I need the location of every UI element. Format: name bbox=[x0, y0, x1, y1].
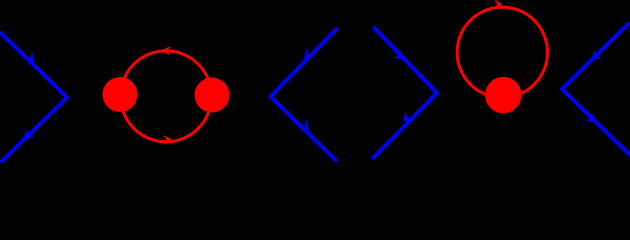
wire: incoming fermion line bbox=[562, 24, 628, 89]
arrow on incoming line of V1 bbox=[24, 51, 39, 66]
arrow on upper-left line of diamond bbox=[300, 47, 315, 62]
wire: upper-right line bbox=[375, 28, 438, 93]
arrow on lower-right line of diamond bbox=[399, 111, 414, 126]
arrow on bottom of loop L1 (pointing right) bbox=[163, 134, 173, 145]
wire: lower-left line bbox=[271, 97, 336, 161]
wire: upper-left line bbox=[271, 29, 337, 97]
arrow on outgoing line of V4 bbox=[585, 112, 600, 127]
fermion chevron V3 (right half of diamond) bbox=[374, 28, 438, 158]
fermion chevron V1 (left vertex diagram) bbox=[1, 33, 67, 161]
wire: incoming fermion line bbox=[1, 33, 67, 98]
blob B2 (right vertex blob of L1) bbox=[195, 78, 230, 113]
fermion chevron V4 (right vertex diagram) bbox=[562, 24, 629, 154]
wire: outgoing fermion line bbox=[562, 89, 629, 154]
wire: outgoing fermion line bbox=[2, 98, 67, 162]
arrow on outgoing line of V1 bbox=[19, 129, 34, 144]
arrow on top of loop L1 (pointing left) bbox=[162, 45, 171, 56]
blob B3 (bottom blob of L2) bbox=[485, 77, 521, 113]
wire: lower-right line bbox=[374, 93, 438, 158]
arrow on upper-right line of diamond bbox=[393, 49, 408, 64]
arrow on top of loop L2 (pointing right) bbox=[494, 0, 503, 10]
arrow on lower-left line of diamond bbox=[298, 119, 313, 134]
loop L1 (red bubble with two blobs) bbox=[121, 51, 212, 142]
blob B1 (left vertex blob of L1) bbox=[103, 77, 138, 112]
arrow on incoming line of V4 bbox=[587, 49, 602, 64]
loop L2 (red tadpole with blob) bbox=[457, 7, 547, 97]
fermion chevron V2 (left half of diamond) bbox=[271, 29, 337, 160]
